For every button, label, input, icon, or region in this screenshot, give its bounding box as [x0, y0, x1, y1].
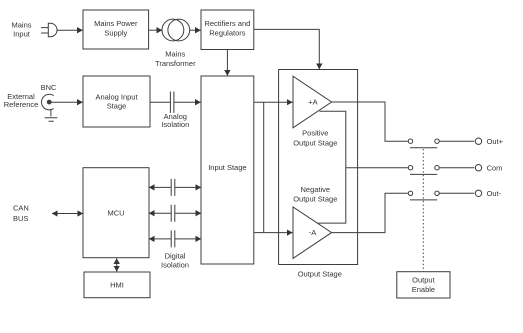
terminal Out+	[475, 138, 481, 144]
wire switch to Out+ terminal	[439, 140, 474, 142]
svg-text:-A: -A	[309, 228, 317, 237]
svg-text:Mains: Mains	[165, 50, 185, 59]
mains transformer T1	[162, 19, 190, 41]
wire MCU to HMI	[116, 258, 118, 271]
wire Rectifiers to Input Stage	[226, 50, 228, 76]
op-amp +A positive amplifier	[293, 76, 332, 128]
svg-text:Output Stage: Output Stage	[298, 270, 342, 279]
svg-text:HMI: HMI	[110, 281, 124, 290]
svg-text:Isolation: Isolation	[161, 261, 189, 270]
dashed gang linkage to Output Enable	[422, 149, 424, 271]
wire CAN BUS to MCU	[52, 213, 83, 215]
svg-text:Isolation: Isolation	[161, 120, 189, 129]
svg-text:Mains Power: Mains Power	[94, 19, 138, 28]
wire Com tap	[346, 167, 408, 169]
svg-text:Positive: Positive	[302, 129, 328, 138]
switch contact Out+	[408, 139, 439, 148]
terminal Out-	[475, 190, 481, 196]
wire BNC to Analog Input Stage	[51, 101, 83, 103]
BNC connector icon	[41, 94, 53, 116]
wire plug to Mains Power Supply	[57, 29, 82, 31]
svg-text:Input: Input	[13, 30, 31, 39]
svg-text:Negative: Negative	[300, 185, 330, 194]
op-amp -A negative amplifier	[293, 207, 332, 259]
mains plug connector icon	[41, 23, 57, 37]
svg-text:+A: +A	[308, 97, 317, 106]
svg-text:Input Stage: Input Stage	[208, 163, 246, 172]
box Mains Power Supply	[83, 10, 149, 49]
wire Input Stage to +A amplifier	[254, 101, 293, 103]
terminal Com	[475, 165, 481, 171]
capacitor digital isolation middle	[171, 205, 175, 222]
wire switch to Com terminal	[439, 167, 474, 169]
wire to -A amplifier	[254, 232, 293, 234]
switch contact Com	[408, 166, 439, 175]
wire analog isolation to Input Stage	[174, 101, 200, 103]
capacitor digital isolation bottom	[171, 230, 175, 247]
wire MCU to Input Stage (middle digital channel)	[149, 212, 171, 214]
wire Mains Power Supply to transformer	[149, 29, 162, 31]
svg-text:Regulators: Regulators	[209, 29, 246, 38]
switch contact Out-	[408, 191, 439, 200]
svg-text:Stage: Stage	[107, 102, 127, 111]
box Output Enable	[397, 272, 450, 298]
wire Analog Input Stage to analog isolation capacitor	[150, 101, 170, 103]
ground	[45, 118, 58, 121]
box Rectifiers and Regulators	[201, 10, 254, 50]
svg-text:Analog Input: Analog Input	[95, 92, 138, 101]
capacitor analog isolation	[170, 92, 174, 113]
svg-text:BUS: BUS	[13, 214, 28, 223]
svg-text:Out-: Out-	[487, 189, 502, 198]
capacitor digital isolation top	[171, 179, 175, 196]
svg-text:Com: Com	[487, 163, 503, 172]
wire transformer to Rectifiers	[190, 29, 201, 31]
svg-text:MCU: MCU	[107, 208, 124, 217]
svg-text:CAN: CAN	[13, 204, 29, 213]
box Output Stage	[279, 70, 358, 265]
wire switch to Out- terminal	[439, 192, 474, 194]
svg-text:Reference: Reference	[4, 100, 39, 109]
svg-text:Rectifiers and: Rectifiers and	[204, 19, 250, 28]
box HMI	[84, 272, 150, 298]
svg-text:Mains: Mains	[11, 20, 31, 29]
svg-text:Output Stage: Output Stage	[293, 138, 337, 147]
wire -A output to Out- switch	[332, 193, 409, 232]
svg-text:Supply: Supply	[104, 29, 127, 38]
wire +A output to Out+ switch	[332, 102, 409, 141]
wire branch node to -A amplifier	[263, 102, 265, 232]
svg-text:Digital: Digital	[165, 252, 186, 261]
svg-text:BNC: BNC	[41, 83, 57, 92]
wire MCU to Input Stage (top digital channel)	[149, 186, 171, 188]
inner feedback box positive/negative output stage	[318, 111, 346, 223]
box MCU	[83, 168, 149, 258]
svg-text:Transformer: Transformer	[155, 59, 196, 68]
box Input Stage	[201, 76, 254, 264]
wire MCU to Input Stage (bottom digital channel)	[149, 238, 171, 240]
box Analog Input Stage	[83, 76, 150, 127]
svg-text:Output Stage: Output Stage	[293, 195, 337, 204]
wire Rectifiers to Output Stage	[254, 29, 319, 69]
svg-text:Out+: Out+	[487, 137, 504, 146]
svg-text:Enable: Enable	[412, 285, 435, 294]
svg-text:Output: Output	[412, 276, 435, 285]
